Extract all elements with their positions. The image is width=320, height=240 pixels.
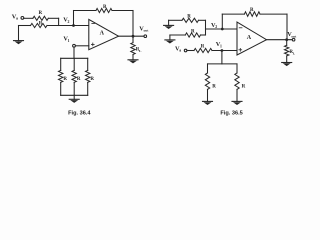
wire [212,50,237,52]
wire [61,94,88,96]
op-amp U1 [89,19,119,49]
node Va (left) [21,17,24,20]
svg-text:R: R [187,15,191,20]
resistor R (right shunt 1) [205,64,209,101]
svg-text:1: 1 [220,44,222,48]
ground (left load) [128,60,138,64]
wire [73,47,75,58]
ground (right load) [282,62,292,66]
wire [170,34,185,36]
wire [19,25,31,27]
wire [286,14,288,40]
ground (right input row 2) [165,35,175,44]
svg-text:a: a [179,49,181,53]
resistor RL (left load) [131,36,135,59]
resistor R (left shunt 2) [72,58,76,95]
wire [221,51,223,64]
svg-text:R: R [39,11,43,16]
svg-text:Fig. 36.5: Fig. 36.5 [220,111,242,117]
svg-text:Fig. 36.4: Fig. 36.4 [68,111,91,117]
wire [199,19,206,21]
svg-text:1: 1 [68,39,70,43]
ground (left input) [14,26,24,45]
svg-text:2: 2 [215,25,217,29]
wire [119,35,145,37]
op-amp U2 [237,22,267,55]
resistor RL (right load) [285,40,289,63]
resistor R (left shunt 3) [86,58,90,95]
ground (left shunt bank) [69,95,79,103]
ground (right shunt 1) [203,101,213,105]
svg-text:A: A [100,31,105,37]
svg-text:2: 2 [68,20,70,24]
node V2 (left) [72,24,75,27]
svg-text:R: R [242,85,246,90]
svg-text:R: R [103,5,107,10]
resistor R (right feedback) [244,12,260,17]
svg-text:R: R [77,77,81,82]
wire [201,34,206,36]
node output junction (left) [132,35,135,38]
resistor R (right series input) [194,48,212,52]
svg-text:R: R [201,44,205,49]
wire [208,63,238,65]
node Va (right) [184,49,187,52]
wire [112,10,133,12]
wire [24,17,33,19]
svg-text:A: A [247,35,252,41]
svg-text:R: R [90,77,94,82]
node Vout (right) [292,38,295,41]
svg-text:out: out [144,29,150,33]
wire [205,20,207,35]
node output junction (right) [285,38,288,41]
node V1 (left) [73,44,76,47]
resistor R (left shunt 1) [59,58,63,95]
wire [58,18,60,25]
resistor R (right input row 2) [185,33,200,37]
wire [169,19,182,21]
resistor R (left feedback) [96,8,112,12]
wire [222,13,244,15]
node V1 (right) [221,49,224,52]
wire [187,50,194,52]
node Vout (left) [144,35,147,38]
resistor R (left grounded input) [31,23,48,27]
svg-text:R: R [39,21,43,26]
resistor R (right shunt 2) [235,64,239,101]
wire [47,25,89,27]
svg-text:R: R [191,30,195,35]
svg-text:a: a [16,17,18,21]
ground (right input row 1) [164,20,174,29]
svg-text:out: out [291,34,297,38]
svg-text:R: R [63,77,67,82]
wire [61,57,88,59]
resistor R (left top input) [33,16,48,20]
wire [132,11,134,37]
wire [206,28,238,30]
resistor R (right input row 1) [182,18,199,22]
svg-text:R: R [250,8,254,13]
wire [75,45,88,47]
wire [73,11,75,26]
ground (right shunt 2) [232,101,242,105]
wire [260,13,287,15]
wire [221,14,223,29]
svg-text:R: R [212,85,216,90]
wire [48,17,58,19]
node V2 (right) [221,28,224,31]
wire [267,39,293,41]
wire [74,10,97,12]
